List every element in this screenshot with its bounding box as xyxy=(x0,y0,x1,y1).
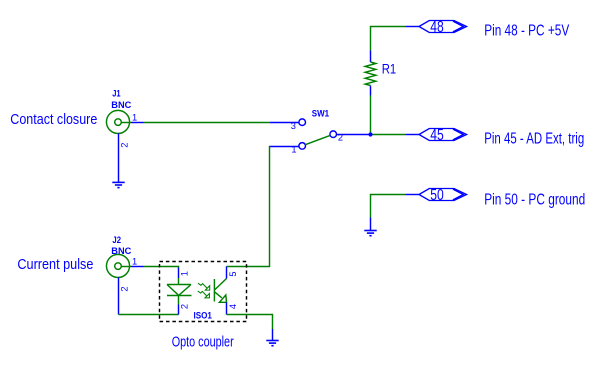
wire (port 50 corner to ground, green) xyxy=(371,195,407,218)
svg-text:3: 3 xyxy=(291,121,296,131)
wire (ISO1 pin4 blue stub) xyxy=(226,302,228,314)
svg-text:BNC: BNC xyxy=(111,246,131,256)
svg-text:5: 5 xyxy=(228,271,238,276)
svg-text:1: 1 xyxy=(132,257,137,267)
wire (SW1 pin1 blue stub) xyxy=(270,146,299,148)
svg-text:J1: J1 xyxy=(112,88,120,98)
connector J2 BNC symbol xyxy=(106,254,131,277)
svg-text:48: 48 xyxy=(430,19,444,36)
svg-text:BNC: BNC xyxy=(111,100,131,110)
wire (to ground, blue) xyxy=(272,329,274,341)
connector J1 BNC symbol xyxy=(106,110,131,133)
svg-text:R1: R1 xyxy=(382,62,397,77)
wire (port 48 blue stub) xyxy=(406,26,419,28)
svg-text:1: 1 xyxy=(180,271,190,276)
svg-text:J2: J2 xyxy=(112,235,121,245)
port 45 xyxy=(419,129,467,141)
phototransistor inside ISO1 xyxy=(214,279,226,303)
svg-text:Pin 48 - PC +5V: Pin 48 - PC +5V xyxy=(484,23,569,40)
svg-text:2: 2 xyxy=(120,286,130,291)
wire (J1 pin1 blue stub) xyxy=(131,122,144,124)
svg-text:Opto coupler: Opto coupler xyxy=(172,333,234,350)
light arrow (lower) xyxy=(198,291,210,298)
svg-text:2: 2 xyxy=(120,143,130,148)
wire (port 45 blue stub) xyxy=(406,134,419,136)
wire (junction up to R1 bottom, green) xyxy=(370,96,372,135)
junction node at SW1 pin2 / R1 / port 45 xyxy=(368,132,372,136)
LED inside ISO1 xyxy=(167,278,192,305)
wire (R1 top to port 48, green) xyxy=(371,27,407,51)
wire (port 50 blue stub) xyxy=(406,194,419,196)
svg-text:2: 2 xyxy=(179,304,189,309)
svg-text:50: 50 xyxy=(430,187,444,204)
svg-text:Current pulse: Current pulse xyxy=(17,256,93,273)
ground (below port 50) xyxy=(364,231,376,236)
switch SW1 xyxy=(299,119,337,149)
wire (to ground below port 50, blue) xyxy=(370,218,372,231)
wire (ISO1 pin5 blue stub) xyxy=(226,267,228,279)
wire (junction to port 45, green) xyxy=(371,134,407,136)
wire (J2 pin1 blue stub) xyxy=(131,266,144,268)
wire (J1 pin2 to ground, blue) xyxy=(118,133,120,182)
wire (J2 pin2 to LED cathode, green) xyxy=(119,314,179,316)
resistor R1 xyxy=(365,51,376,96)
svg-text:45: 45 xyxy=(430,127,444,144)
opto coupler ISO1 dashed box xyxy=(160,262,247,322)
port 50 xyxy=(419,189,467,201)
wire (LED pin2 blue stub) xyxy=(178,305,180,315)
svg-text:Contact closure: Contact closure xyxy=(10,111,97,128)
ground (below ISO1 pin4) xyxy=(266,341,278,346)
svg-text:Pin 50 - PC ground: Pin 50 - PC ground xyxy=(484,191,585,208)
wire (SW1 pin3 blue stub) xyxy=(270,122,299,124)
svg-text:ISO1: ISO1 xyxy=(194,311,212,321)
wire (ISO1 pin4 to ground, green) xyxy=(227,315,273,330)
wire (SW1 pin2 to junction, blue) xyxy=(337,134,371,136)
svg-text:Pin 45 - AD Ext, trig: Pin 45 - AD Ext, trig xyxy=(484,131,584,148)
ground (below J1) xyxy=(112,182,124,187)
wire (SW1 pin1 to opto collector riser, green) xyxy=(227,147,271,267)
svg-text:1: 1 xyxy=(132,113,137,123)
wire (LED pin1 blue stub) xyxy=(178,268,180,279)
svg-text:4: 4 xyxy=(228,304,238,309)
wire (J2 pin1 to LED anode, green) xyxy=(144,267,179,268)
wire (J1 to SW1 pin3, green net) xyxy=(144,122,271,124)
svg-text:SW1: SW1 xyxy=(312,109,329,119)
light arrow (upper) xyxy=(198,283,210,290)
wire (J2 pin2 down, blue) xyxy=(118,277,120,314)
port 48 xyxy=(419,21,467,33)
